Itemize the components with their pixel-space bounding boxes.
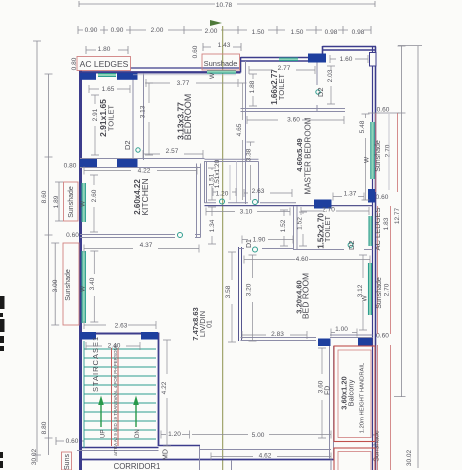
svg-text:STAIRCASE1: STAIRCASE1 — [91, 336, 100, 392]
bedroom2 left wall — [239, 247, 242, 341]
dim line 1.60 top right — [330, 55, 368, 63]
svg-text:30.02: 30.02 — [406, 449, 413, 466]
svg-text:W: W — [362, 295, 369, 302]
door toilet2 — [316, 90, 320, 94]
svg-text:W: W — [80, 285, 87, 292]
svg-text:Sunshade: Sunshade — [375, 140, 382, 172]
svg-text:1.60: 1.60 — [340, 56, 353, 63]
svg-text:Sunshade: Sunshade — [204, 59, 238, 68]
svg-text:0.90: 0.90 — [85, 27, 98, 34]
svg-text:10.78: 10.78 — [216, 2, 233, 9]
dim line 1.37 — [333, 193, 364, 201]
svg-text:Sunshade: Sunshade — [65, 269, 72, 301]
top segment dimension line — [78, 26, 371, 34]
svg-text:2.70: 2.70 — [385, 144, 392, 157]
bedroom1 bottom wall — [144, 158, 205, 160]
svg-text:1.20: 1.20 — [216, 191, 229, 198]
dim line 1.00 balcony top — [331, 329, 357, 337]
svg-text:D1: D1 — [246, 239, 253, 248]
dim vline 2.60 kitchen — [90, 175, 98, 232]
dim 1.80 over AC ledge — [86, 46, 128, 54]
svg-text:1.90: 1.90 — [253, 237, 266, 244]
toilet3 left wall — [294, 206, 298, 250]
svg-text:12.77: 12.77 — [394, 207, 401, 224]
dim vline 3.12 window — [359, 255, 367, 330]
bedroom1 left wall — [143, 73, 145, 160]
left outer dimension line 30.02 — [33, 41, 41, 462]
window kitchen left — [82, 183, 85, 222]
svg-text:1.37: 1.37 — [344, 191, 357, 198]
left dimension line 8.60/8.80 — [45, 74, 53, 455]
svg-text:0.60: 0.60 — [66, 232, 79, 239]
step wall x240 — [240, 57, 242, 73]
balcony left wall — [330, 346, 334, 459]
svg-text:2.00: 2.00 — [205, 28, 218, 35]
dim vline 1.51 store — [208, 168, 216, 200]
columns (blue) — [80, 54, 375, 347]
svg-text:Suns: Suns — [64, 454, 71, 470]
dim line 4.60 bedroom2 — [244, 256, 370, 264]
svg-text:1.50: 1.50 — [252, 29, 265, 36]
svg-text:0.98: 0.98 — [325, 29, 338, 36]
door D2 toilet1 — [136, 148, 140, 152]
svg-text:2.03: 2.03 — [327, 69, 334, 82]
dim vline 4.22 staircase — [163, 340, 171, 446]
staircase left wall inner — [83, 341, 85, 448]
toilet2 bottom wall — [241, 109, 346, 112]
svg-text:4.65: 4.65 — [236, 123, 243, 136]
store left wall — [205, 161, 207, 203]
door circles — [136, 90, 353, 252]
svg-text:2.83: 2.83 — [271, 331, 284, 338]
svg-text:1.52x2.70: 1.52x2.70 — [317, 213, 326, 249]
top wall left section — [131, 67, 241, 69]
svg-text:0.60: 0.60 — [66, 438, 79, 445]
svg-text:2.00: 2.00 — [151, 27, 164, 34]
svg-text:2.63: 2.63 — [115, 323, 128, 330]
dim line 3.77 bedroom1 — [146, 79, 238, 87]
dim line 1.65 toilet1 — [89, 85, 130, 93]
door kitchen — [178, 233, 183, 238]
bottom corridor wall — [80, 459, 335, 461]
dim line 2.70 toilet3 — [301, 207, 369, 215]
top wall middle section — [241, 58, 323, 62]
svg-text:1.34: 1.34 — [209, 219, 216, 232]
svg-text:Sunshade: Sunshade — [68, 186, 75, 218]
dim vline 3.40 left window — [90, 251, 98, 322]
store right wall — [258, 162, 260, 204]
window toilet3 right — [369, 216, 372, 246]
top wall right section — [323, 47, 377, 51]
column toilet1 bottom-right — [117, 159, 138, 167]
kitchen bottom wall — [80, 235, 201, 238]
dim line 2.40 staircase — [86, 342, 140, 350]
door toilet3 — [348, 243, 353, 248]
svg-text:2.70: 2.70 — [384, 283, 391, 296]
column staircase top-left — [80, 332, 96, 340]
section arrow top — [210, 20, 222, 26]
dim vline 2.91 toilet1 — [91, 95, 99, 155]
dim line 2.57 — [143, 150, 203, 158]
dim vline 3.20 bedroom2 — [249, 255, 257, 341]
svg-text:1.43: 1.43 — [218, 42, 231, 49]
exterior walls — [80, 46, 377, 470]
svg-text:Sunshade: Sunshade — [376, 277, 383, 309]
master bedroom bottom wall — [205, 205, 373, 207]
AC LEDGES box top-left — [77, 57, 131, 71]
dim 1.89 rot line — [55, 182, 63, 221]
sill line under top wall — [133, 74, 236, 76]
svg-text:1.51: 1.51 — [209, 173, 216, 186]
svg-text:3.60x1.20: 3.60x1.20 — [340, 376, 349, 409]
svg-text:3.60: 3.60 — [318, 380, 325, 393]
right dimension line 12.77 — [394, 46, 406, 397]
dim vline 1.34 — [208, 207, 216, 244]
dim vline 2.03 — [327, 66, 335, 104]
svg-text:1.50: 1.50 — [291, 29, 304, 36]
dim vline 5.48 master — [362, 114, 370, 200]
svg-text:2.91x1.65: 2.91x1.65 — [98, 99, 108, 137]
svg-text:1.00: 1.00 — [335, 326, 348, 333]
sunshade box left livdin — [63, 243, 79, 325]
landing bottom wall — [159, 445, 201, 447]
black edge fragments — [0, 296, 5, 468]
svg-text:AC LEDGES: AC LEDGES — [373, 208, 382, 251]
window bedroom2 right — [369, 263, 372, 315]
svg-text:0.60: 0.60 — [377, 107, 390, 114]
dim 1.43 over sunshade — [203, 43, 241, 51]
column toilet1 top-left — [80, 73, 96, 80]
bedroom2 bottom wall — [241, 338, 317, 341]
interior dims — [84, 55, 370, 460]
dim line 2.77 toilet2 — [249, 66, 315, 74]
svg-text:W: W — [364, 156, 371, 163]
svg-text:3.13: 3.13 — [140, 105, 147, 118]
svg-text:1.52: 1.52 — [297, 217, 304, 230]
svg-text:1.66x2.77: 1.66x2.77 — [270, 69, 279, 105]
dim line 2.63 staircase — [84, 321, 156, 329]
window bedroom1 top — [207, 70, 236, 73]
svg-text:W: W — [80, 200, 87, 207]
svg-text:1.52: 1.52 — [280, 219, 287, 232]
balcony inner red rect — [338, 350, 371, 438]
lower gray wall — [77, 450, 159, 452]
svg-text:0.90: 0.90 — [111, 27, 124, 34]
svg-text:1.89: 1.89 — [53, 195, 60, 208]
column right wall mid — [368, 189, 375, 203]
wall over balcony — [330, 335, 373, 338]
column toilet1 bottom-left — [80, 159, 97, 167]
right sunshade band lower — [378, 345, 391, 470]
svg-text:2.77: 2.77 — [278, 65, 291, 72]
dim vline 1.52 b — [299, 212, 307, 246]
balcony2 red box bottom — [334, 448, 375, 470]
svg-text:3.20x4.60: 3.20x4.60 — [295, 280, 304, 313]
svg-text:D2: D2 — [123, 140, 132, 150]
dim vline 3.58 bedroom2 — [228, 252, 236, 342]
svg-text:4.22: 4.22 — [161, 381, 168, 394]
sunshade box bottom-left — [62, 452, 72, 470]
svg-text:2.40: 2.40 — [108, 343, 121, 350]
svg-text:1.65: 1.65 — [102, 86, 115, 93]
dim vline 1.52 a — [280, 210, 288, 246]
svg-text:3.00: 3.00 — [52, 279, 59, 292]
column top middle — [308, 54, 326, 63]
bedroom2 top wall door opening — [239, 248, 294, 250]
svg-text:aITRA AJ 9 LED 19 TRANSVAAL 4: aITRA AJ 9 LED 19 TRANSVAAL 4 FOR PH PER… — [113, 344, 118, 455]
svg-text:4.22: 4.22 — [138, 168, 151, 175]
svg-text:0.60: 0.60 — [376, 194, 389, 201]
svg-text:0.60: 0.60 — [376, 333, 389, 340]
svg-text:8.60: 8.60 — [41, 190, 48, 203]
dim vline 4.65 — [239, 83, 247, 200]
svg-text:3.38: 3.38 — [246, 148, 253, 161]
svg-text:0.98: 0.98 — [352, 29, 365, 36]
svg-text:7.47x8.63: 7.47x8.63 — [191, 307, 200, 340]
svg-text:3.60: 3.60 — [287, 117, 300, 124]
corridor verticals below — [232, 460, 332, 470]
dim line 1.20 store — [213, 188, 236, 196]
column staircase top-right — [141, 332, 158, 340]
toilet1 / kitchen divider — [80, 158, 144, 160]
toilet2 right wall — [316, 61, 318, 112]
windows (teal) — [82, 58, 374, 323]
right outer wall — [372, 47, 374, 470]
dim line 4.62 corridor — [211, 453, 331, 461]
window toilet2 top — [279, 58, 298, 61]
sunshade box top middle — [202, 54, 240, 70]
column toilet1 top-right — [117, 73, 138, 80]
svg-text:8.80: 8.80 — [41, 421, 48, 434]
store inner verticals — [230, 161, 237, 203]
left outer wall — [79, 70, 82, 470]
svg-text:0.60: 0.60 — [192, 45, 199, 58]
svg-text:UP: UP — [101, 430, 107, 438]
svg-text:D2: D2 — [347, 240, 356, 250]
svg-text:CORRIDOR1: CORRIDOR1 — [114, 462, 161, 470]
dim line 3.10 hall — [206, 208, 290, 216]
step wall x322 — [322, 46, 324, 61]
svg-text:30.02: 30.02 — [31, 448, 38, 465]
svg-text:5.48: 5.48 — [359, 120, 366, 133]
svg-text:3.13x3.77: 3.13x3.77 — [176, 102, 186, 140]
svg-text:3.20: 3.20 — [246, 283, 253, 296]
svg-text:4.37: 4.37 — [140, 242, 153, 249]
svg-text:2.91: 2.91 — [92, 108, 99, 121]
svg-text:0.80: 0.80 — [64, 163, 77, 170]
section line vertical — [222, 26, 224, 470]
dim 0.60 bottom-left — [56, 437, 84, 445]
svg-text:0.80: 0.80 — [71, 57, 78, 70]
interior walls — [77, 61, 373, 470]
dim line 1.90 bedroom2 door — [242, 236, 293, 244]
toilet1 right wall — [132, 80, 134, 161]
svg-text:2.60x4.22: 2.60x4.22 — [133, 179, 142, 215]
white column top right — [370, 53, 377, 67]
store bottom wall with door openings — [205, 202, 297, 204]
right dimension line 30.02 — [398, 46, 422, 469]
dim 3.00 rot line — [51, 243, 59, 325]
svg-text:MD: MD — [163, 449, 170, 460]
staircase block walls — [80, 333, 159, 448]
sunshade box left kitchen — [64, 182, 79, 221]
svg-text:1.80: 1.80 — [98, 46, 111, 53]
store top wall — [205, 159, 259, 161]
window livdin left — [82, 251, 85, 323]
window toilet1 top — [98, 74, 116, 77]
dim line 4.22 kitchen — [84, 167, 197, 175]
svg-text:2.60: 2.60 — [91, 189, 98, 202]
staircase center handrail — [112, 348, 119, 446]
door D1 bedroom2 — [253, 247, 258, 252]
svg-text:AC LEDGES: AC LEDGES — [80, 59, 129, 69]
door store left — [220, 199, 225, 204]
svg-text:4.62: 4.62 — [259, 453, 272, 460]
column master bottom — [314, 200, 332, 209]
dim line 3.60 master — [247, 116, 344, 124]
dim vline 3.13 bedroom1 — [145, 83, 153, 155]
kitchen right wall — [197, 164, 201, 238]
dim line 2.63 hall — [244, 189, 292, 197]
svg-text:3.58: 3.58 — [225, 285, 232, 298]
column balcony right — [358, 338, 372, 346]
toilet3 bottom wall — [294, 249, 373, 251]
right sunshade band upper — [376, 113, 398, 192]
svg-text:4.60x5.49: 4.60x5.49 — [295, 138, 304, 171]
dim line 2.83 bedroom2 bottom — [242, 331, 307, 339]
dim line 5.00 corridor + 1.20 — [161, 431, 331, 439]
svg-text:3.40: 3.40 — [89, 277, 96, 290]
corridor top wall — [200, 449, 331, 451]
master block left wall — [245, 61, 247, 204]
kitchen top wall — [80, 167, 201, 169]
staircase right wall — [158, 333, 160, 447]
dim vline 3.60 balcony — [318, 348, 326, 438]
window master right — [371, 122, 374, 179]
svg-text:1.83: 1.83 — [383, 217, 390, 230]
svg-text:D2: D2 — [316, 87, 325, 97]
svg-text:1.88: 1.88 — [249, 80, 256, 93]
svg-text:1.20: 1.20 — [168, 431, 181, 438]
svg-text:W: W — [209, 72, 216, 79]
svg-text:MASTER BEDROOM: MASTER BEDROOM — [304, 117, 313, 194]
staircase treads — [84, 341, 156, 448]
dim line 4.37 livdin — [84, 245, 199, 253]
staircase bottom wall — [80, 447, 159, 449]
right AC ledges band — [378, 206, 391, 252]
dim vline 1.88 toilet2 — [249, 74, 257, 106]
svg-text:2.57: 2.57 — [166, 148, 179, 155]
staircase top wall — [80, 333, 159, 335]
balcony outer red rect — [334, 346, 375, 442]
svg-text:4.60: 4.60 — [296, 256, 309, 263]
svg-text:01: 01 — [207, 320, 214, 328]
dim vline 3.38 — [247, 142, 255, 200]
svg-text:3.77: 3.77 — [177, 80, 190, 87]
svg-text:2.63: 2.63 — [252, 188, 265, 195]
landing wall — [199, 446, 201, 470]
balcony2 inner — [338, 452, 371, 470]
svg-text:FD: FD — [325, 386, 332, 395]
column balcony left — [318, 339, 331, 347]
right sunshade band mid — [378, 252, 391, 334]
svg-text:DN: DN — [135, 429, 141, 438]
staircase up arrow — [98, 396, 104, 428]
svg-text:3.10: 3.10 — [240, 209, 253, 216]
staircase dn arrow — [133, 396, 139, 428]
svg-text:5.00: 5.00 — [252, 432, 265, 439]
svg-text:1.20m HEIGHT HANDRAIL: 1.20m HEIGHT HANDRAIL — [360, 362, 366, 433]
svg-text:2.70: 2.70 — [322, 207, 335, 214]
door store right — [253, 200, 258, 205]
top overall dimension line 10.78 — [79, 1, 375, 7]
window glass fills — [82, 58, 374, 323]
